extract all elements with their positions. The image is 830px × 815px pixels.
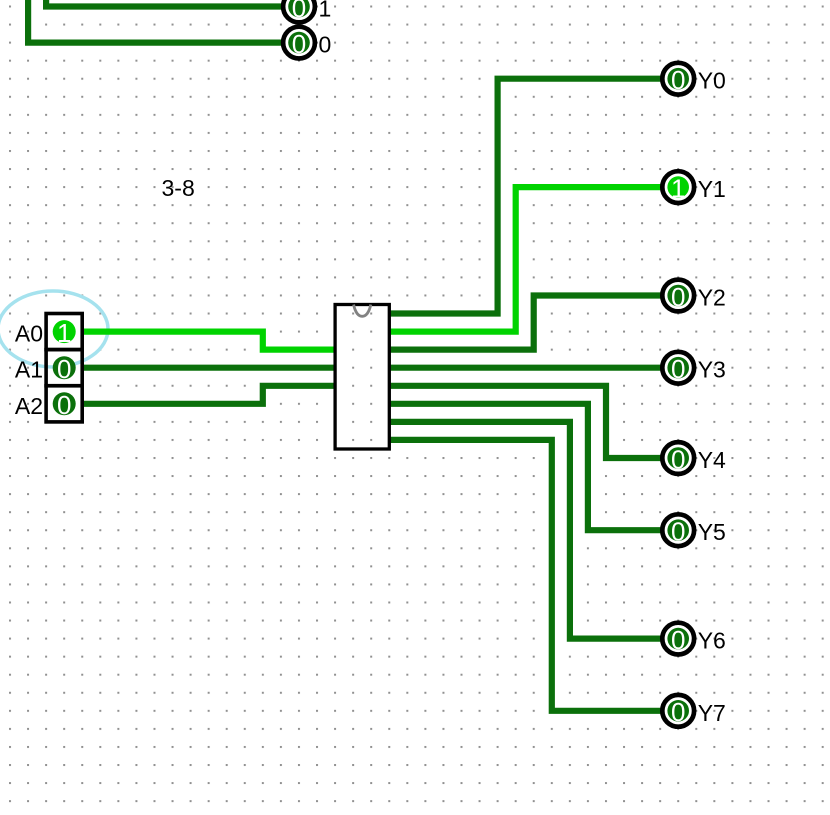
svg-text:0: 0 [292, 29, 306, 59]
output pin "0" (top) [283, 27, 315, 59]
svg-text:1: 1 [57, 318, 71, 348]
svg-text:Y1: Y1 [698, 176, 726, 202]
input pin A1 [46, 350, 82, 386]
wire decoder out to Y4 [389, 386, 661, 458]
input pin A0 [46, 314, 82, 350]
wire decoder out to Y5 [389, 404, 661, 530]
input pin A2 [46, 386, 82, 422]
subcircuit U1 "3-8 decoder" body [335, 305, 389, 450]
svg-text:0: 0 [319, 32, 332, 58]
wire decoder out to Y1 [389, 187, 661, 332]
svg-text:A1: A1 [15, 357, 43, 383]
wire decoder out to Y0 [389, 79, 661, 314]
svg-text:0: 0 [671, 697, 685, 727]
output pin Y6 [662, 623, 694, 655]
output pin Y4 [662, 442, 694, 474]
svg-text:Y7: Y7 [698, 700, 726, 726]
svg-text:Y3: Y3 [698, 357, 726, 383]
svg-text:0: 0 [57, 354, 71, 384]
svg-text:1: 1 [671, 173, 685, 203]
output pin Y7 [662, 695, 694, 727]
wire decoder out to Y6 [389, 422, 661, 639]
output pin Y1 [662, 171, 694, 203]
output pin Y5 [662, 514, 694, 546]
svg-text:Y4: Y4 [698, 447, 726, 473]
svg-text:Y6: Y6 [698, 628, 726, 654]
wire A0 to decoder [83, 332, 337, 350]
svg-text:3-8: 3-8 [162, 175, 195, 201]
svg-text:0: 0 [671, 65, 685, 95]
wire decoder out to Y3 [389, 365, 661, 371]
wire A1 to decoder [83, 365, 337, 371]
svg-text:0: 0 [671, 444, 685, 474]
svg-text:Y0: Y0 [698, 68, 726, 94]
wire A2 to decoder [83, 386, 337, 404]
output pin Y3 [662, 352, 694, 384]
svg-text:A2: A2 [15, 393, 43, 419]
svg-text:0: 0 [57, 390, 71, 420]
svg-text:A0: A0 [15, 321, 43, 347]
svg-text:Y2: Y2 [698, 285, 726, 311]
svg-text:0: 0 [671, 517, 685, 547]
svg-text:0: 0 [671, 282, 685, 312]
svg-text:1: 1 [319, 0, 332, 22]
output pin "1" (top) [283, 0, 315, 23]
output pin Y0 [662, 63, 694, 95]
annotation ellipse around A0 [0, 291, 108, 367]
wire to pin 0 (top) [28, 0, 282, 43]
wire decoder out to Y7 [389, 440, 661, 711]
chip notch [354, 305, 371, 317]
output pin Y2 [662, 280, 694, 312]
svg-text:Y5: Y5 [698, 519, 726, 545]
wire decoder out to Y2 [389, 296, 661, 350]
svg-text:0: 0 [671, 625, 685, 655]
svg-text:0: 0 [671, 354, 685, 384]
svg-text:0: 0 [292, 0, 306, 23]
wire to pin 1 (top) [46, 0, 282, 7]
